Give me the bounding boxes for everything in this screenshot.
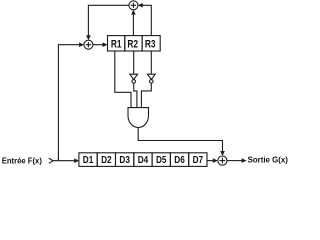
- register R3: [142, 36, 160, 51]
- wire A2 output feedback to A1: [88, 5, 129, 36]
- wire D7 to adder A3: [207, 160, 214, 162]
- junction tap node: [57, 158, 59, 161]
- adder A2 (top XOR): [129, 1, 138, 10]
- adder A1 (left XOR): [84, 40, 93, 49]
- svg-text:R1: R1: [111, 38, 122, 50]
- shift register D5: [152, 153, 170, 167]
- svg-text:D2: D2: [101, 155, 112, 166]
- inverter N1: [130, 74, 138, 79]
- inverter N2: [147, 74, 155, 79]
- svg-text:D1: D1: [83, 155, 94, 166]
- wire input F(x) to D1: [53, 160, 76, 162]
- register R2: [125, 36, 142, 51]
- wire A1 output to R1: [93, 44, 104, 46]
- shift register D6: [170, 153, 188, 167]
- wire N2 output to AND gate input 3: [141, 83, 151, 107]
- shift register D1: [79, 153, 97, 167]
- svg-text:D6: D6: [174, 155, 185, 166]
- wire U1 output to adder A3: [138, 127, 222, 152]
- shift register D7: [189, 153, 207, 167]
- wire R1 down to AND gate input 1: [115, 51, 131, 108]
- svg-text:R2: R2: [127, 38, 138, 50]
- wire R3 down to inverter N2: [150, 51, 152, 74]
- register R1: [108, 36, 125, 51]
- wire N1 output to AND gate input 2: [134, 83, 137, 107]
- shift register D3: [116, 153, 134, 167]
- wire R2 up to A2: [132, 13, 134, 35]
- svg-text:Entrée F(x): Entrée F(x): [2, 156, 43, 165]
- svg-text:D7: D7: [193, 155, 204, 166]
- wire A3 to output: [227, 160, 243, 162]
- svg-text:D4: D4: [138, 155, 149, 166]
- svg-text:D3: D3: [119, 155, 130, 166]
- input connector chevron: [49, 158, 53, 163]
- shift register D2: [97, 153, 115, 167]
- adder A3 (output XOR): [218, 156, 227, 165]
- svg-text:D5: D5: [156, 155, 167, 166]
- svg-text:Sortie G(x): Sortie G(x): [248, 155, 289, 164]
- wire R3 up-left to A2: [142, 5, 152, 35]
- wire tap up to adder A1: [58, 45, 80, 161]
- shift register D4: [134, 153, 152, 167]
- wire R2 down to inverter N1: [133, 51, 135, 74]
- svg-text:R3: R3: [145, 38, 156, 50]
- AND gate U1: [128, 108, 149, 128]
